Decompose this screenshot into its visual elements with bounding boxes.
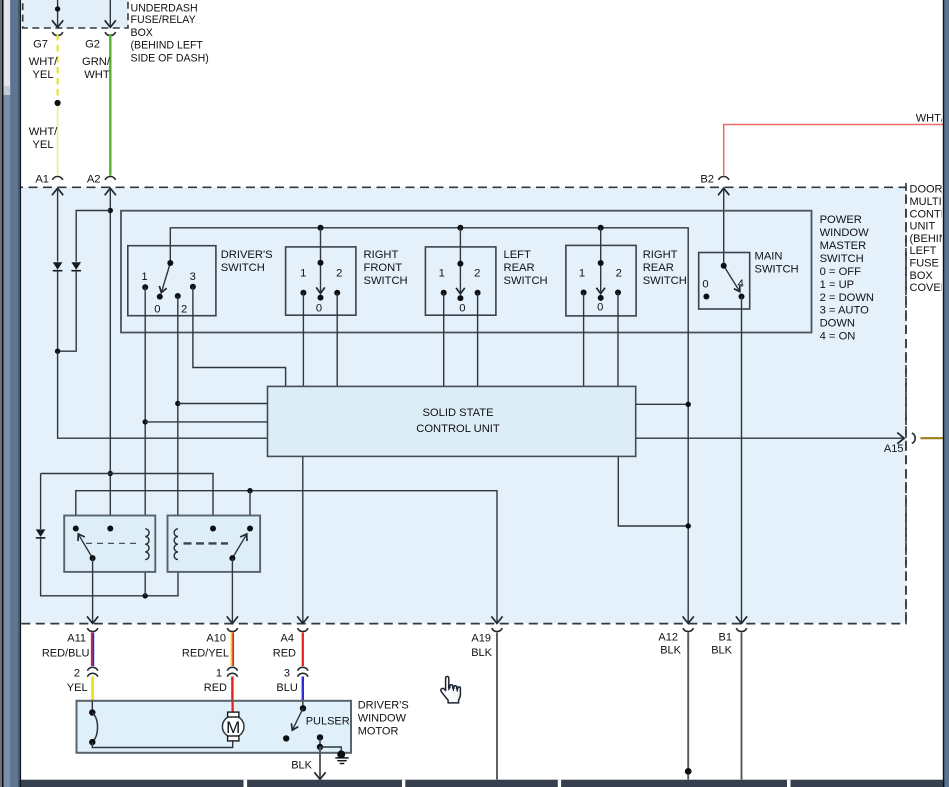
svg-text:B2: B2: [700, 174, 714, 186]
svg-text:BLK: BLK: [660, 645, 681, 657]
svg-text:2: 2: [616, 267, 622, 279]
junction driver 1 branch: [143, 419, 148, 424]
svg-text:SIDE OF DASH): SIDE OF DASH): [131, 52, 209, 64]
svg-text:1: 1: [141, 271, 147, 283]
svg-text:2: 2: [74, 668, 80, 680]
right rear switch box: [566, 245, 636, 316]
relay output rail (lower horizontal) to A19: [76, 491, 497, 623]
relay 2 actuator dashed link: [184, 542, 229, 544]
svg-text:BLK: BLK: [471, 647, 492, 659]
svg-text:POWER: POWER: [820, 214, 862, 226]
wire relay 2 output to A10: [231, 558, 233, 623]
wire WHT/YEL (G7 to A1): [57, 34, 59, 102]
svg-text:YEL: YEL: [67, 682, 88, 694]
inline connector 2: [87, 667, 98, 670]
wire driver's 3 output to control unit: [193, 287, 286, 387]
junction of diode outputs: [55, 349, 60, 354]
wire left rear 2 to control unit: [477, 293, 479, 387]
exit arrow A10: [227, 616, 238, 623]
hand cursor: [441, 677, 461, 703]
wire right front 1 to control unit: [302, 293, 304, 387]
contact 2: [175, 293, 181, 299]
svg-text:WHT/: WHT/: [29, 56, 58, 68]
svg-text:B1: B1: [719, 632, 732, 644]
diode D2 (on A2 branch): [71, 262, 81, 270]
wire D1 down to junction: [57, 271, 59, 351]
wire BLU to pulser: [302, 677, 304, 702]
svg-text:YEL: YEL: [32, 69, 53, 81]
power window master switch outer box: [121, 211, 812, 333]
motor switch arc: [92, 713, 97, 743]
connector A15: [912, 433, 915, 444]
underdash fuse/relay box (dashed): [23, 0, 128, 28]
feed junction right rear: [598, 225, 604, 231]
wire control unit right output to A12 drop: [636, 403, 689, 405]
wire BLK motor ground: [319, 747, 321, 778]
svg-text:SWITCH: SWITCH: [820, 253, 864, 265]
svg-text:G7: G7: [33, 39, 48, 51]
svg-text:BLU: BLU: [276, 682, 297, 694]
junction on A12 drop lower: [686, 523, 691, 528]
feed into right front switch: [320, 228, 322, 293]
relay 2 (window down relay) box: [168, 516, 261, 572]
case ground dot: [337, 750, 345, 758]
svg-text:BLK: BLK: [711, 645, 732, 657]
svg-text:3: 3: [284, 668, 290, 680]
svg-text:4 = ON: 4 = ON: [820, 331, 856, 343]
wire relay 1 output to A11: [92, 558, 94, 623]
wire driver's 2 output to relay 2 coil: [177, 296, 179, 529]
feed junction left rear: [457, 225, 463, 231]
relay 1 common: [107, 526, 113, 532]
bottom frame band (next diagram border): [0, 780, 949, 787]
wire RED/YEL (A10): [231, 633, 233, 667]
svg-text:1: 1: [439, 267, 445, 279]
diode D3: [36, 529, 46, 537]
wire A15 WHT tail: [921, 437, 944, 439]
wire YEL to motor: [91, 677, 94, 701]
svg-text:2: 2: [181, 303, 187, 315]
inline connector 1: [227, 667, 238, 670]
contact 0: [598, 295, 604, 301]
connector A19: [492, 628, 503, 631]
relay 1 (window up relay) box: [64, 516, 155, 572]
motor switch contact top: [91, 701, 93, 710]
contact 1: [581, 290, 587, 296]
contact 0: [457, 295, 463, 301]
svg-text:YEL: YEL: [32, 139, 53, 151]
wire main switch 4 output to B1: [741, 297, 743, 623]
wire WHT/RED from right edge to B2: [724, 125, 943, 176]
connector A12: [683, 628, 694, 631]
splice on A12 ground wire: [685, 768, 692, 775]
wire BLK (A19): [496, 633, 498, 780]
wire branch to diode: [76, 211, 110, 262]
feed into left rear switch: [459, 228, 461, 294]
svg-text:LEFT: LEFT: [504, 249, 532, 261]
svg-text:A12: A12: [658, 632, 678, 644]
power window master switch assembly box (dashed): [14, 187, 906, 623]
relay 1 lever: [79, 535, 93, 558]
exit arrow A11: [87, 616, 98, 623]
svg-text:SWITCH: SWITCH: [504, 275, 548, 287]
relay 1 NO contact: [73, 526, 79, 532]
right front switch box: [286, 247, 356, 315]
svg-text:SWITCH: SWITCH: [755, 263, 799, 275]
svg-text:0: 0: [316, 303, 322, 315]
svg-text:FUSE: FUSE: [910, 258, 939, 270]
junction on G7 wire: [55, 6, 60, 11]
svg-text:DOOR: DOOR: [910, 184, 943, 196]
junction on A12 drop: [686, 402, 691, 407]
svg-text:BOX: BOX: [131, 27, 153, 39]
motor M: [222, 716, 244, 738]
exit arrow A12: [683, 616, 694, 623]
diode D1 (on A1 wire): [53, 262, 63, 270]
wire D3 to coil return rail: [41, 538, 178, 596]
wire control unit bottom output to A12 drop: [618, 456, 688, 526]
right scrollbar strip: [943, 0, 949, 787]
relay 1 actuator dashed link: [86, 542, 140, 544]
main switch box: [699, 253, 750, 310]
wire D2 down joins junction: [58, 271, 77, 351]
exit arrow A19: [491, 616, 502, 623]
svg-text:CONTROL UNIT: CONTROL UNIT: [416, 423, 500, 435]
svg-text:M: M: [226, 718, 240, 737]
svg-text:1: 1: [579, 267, 585, 279]
svg-text:SWITCH: SWITCH: [643, 275, 687, 287]
wire G2 feed inside fuse box: [109, 0, 111, 26]
connector A10: [227, 628, 238, 631]
driver's switch lever: [162, 263, 171, 292]
svg-text:MOTOR: MOTOR: [358, 726, 399, 738]
door multiplex control unit box edge (dashed): [905, 183, 907, 624]
svg-text:UNDERDASH: UNDERDASH: [131, 3, 198, 15]
exit arrow A4: [297, 616, 308, 623]
svg-text:3 = AUTO: 3 = AUTO: [820, 305, 870, 317]
svg-text:(BEHIND LEFT: (BEHIND LEFT: [131, 40, 204, 52]
junction driver 2 branch: [175, 401, 180, 406]
connector G2: [105, 32, 116, 35]
feed junction right front: [318, 225, 324, 231]
relay 1 coil: [145, 529, 149, 560]
svg-text:WHT: WHT: [84, 69, 110, 81]
contact 1: [441, 290, 447, 296]
wire to control unit left input 3: [58, 351, 268, 438]
wire left rear 1 to control unit: [443, 293, 445, 387]
contact 1: [300, 290, 306, 296]
solid state control unit box: [268, 386, 636, 456]
svg-text:RED: RED: [204, 682, 227, 694]
contact 1: [142, 284, 148, 290]
svg-text:1 = UP: 1 = UP: [820, 279, 855, 291]
svg-text:0: 0: [154, 303, 160, 315]
svg-text:4: 4: [738, 278, 744, 290]
pulser contact: [302, 702, 304, 707]
svg-text:A4: A4: [281, 633, 294, 645]
connector A11: [87, 628, 98, 631]
wire driver's 1 output to relay 1 coil: [144, 287, 146, 529]
svg-text:0 = OFF: 0 = OFF: [820, 266, 862, 278]
wire to case ground: [320, 747, 341, 753]
svg-text:0: 0: [597, 302, 603, 314]
connector A2: [105, 177, 116, 180]
svg-text:A10: A10: [206, 633, 226, 645]
svg-text:RIGHT: RIGHT: [364, 249, 399, 261]
wire relay 1 coil bottom to return rail: [144, 559, 146, 596]
svg-text:RED: RED: [273, 648, 296, 660]
svg-text:A11: A11: [67, 633, 86, 645]
svg-text:G2: G2: [85, 39, 100, 51]
contact 0: [703, 294, 709, 300]
connector G7: [52, 32, 63, 35]
svg-text:A15: A15: [884, 443, 904, 455]
wire branch to control unit left input 1: [178, 403, 268, 405]
svg-text:LEFT: LEFT: [910, 245, 937, 257]
contact 2: [615, 290, 621, 296]
junction relay 1 coil return: [143, 593, 148, 598]
junction A2 wire / relay feed rail: [108, 471, 113, 476]
relay 2 common: [210, 526, 216, 532]
feed wire from driver switch across to A12 drop: [170, 228, 688, 623]
relay 2 coil: [174, 529, 178, 560]
svg-text:DRIVER'S: DRIVER'S: [221, 249, 273, 261]
main switch lever: [724, 266, 740, 291]
connector A1: [52, 177, 63, 180]
svg-text:DOWN: DOWN: [820, 318, 855, 330]
svg-text:FUSE/RELAY: FUSE/RELAY: [131, 14, 196, 26]
svg-text:A19: A19: [471, 633, 491, 645]
svg-text:2 = DOWN: 2 = DOWN: [820, 292, 874, 304]
wire rail down to diode D3: [40, 474, 42, 530]
label: DOOR MULTIPLEX CONTROL UNIT: [910, 184, 949, 294]
pulser lever: [293, 708, 303, 729]
svg-text:WHT/: WHT/: [29, 126, 58, 138]
svg-text:0: 0: [702, 279, 708, 291]
svg-text:2: 2: [336, 267, 342, 279]
wire RED/BLU (A11): [91, 633, 93, 667]
wire BLK (B1): [741, 633, 743, 780]
wire GRN/WHT (G2 to A2): [109, 34, 111, 176]
contact 2: [334, 290, 340, 296]
junction A2 branch: [108, 208, 113, 213]
left rear switch box: [425, 247, 496, 315]
svg-text:1: 1: [216, 668, 222, 680]
svg-text:GRN/: GRN/: [82, 56, 111, 68]
svg-text:DRIVER'S: DRIVER'S: [358, 700, 409, 712]
contact 4: [739, 294, 745, 300]
svg-text:MASTER: MASTER: [820, 240, 867, 252]
exit arrow B1: [736, 616, 747, 623]
connector B2: [718, 177, 729, 180]
wire right rear 1 to control unit: [583, 293, 585, 387]
wire branch to control unit left input 2: [145, 421, 267, 423]
svg-text:2: 2: [474, 267, 480, 279]
svg-text:BLK: BLK: [291, 760, 312, 772]
svg-text:RED/YEL: RED/YEL: [182, 648, 229, 660]
wire RED inside motor box: [232, 701, 234, 712]
relay feed rail (upper horizontal): [41, 474, 213, 529]
wire control unit output to A4: [302, 456, 304, 622]
wire BLK (A12): [687, 633, 689, 769]
inline connector 3: [298, 667, 309, 670]
splice on WHT/YEL wire: [55, 100, 61, 106]
contact 0: [157, 294, 163, 300]
wire relay 2 NO contact up-connect: [249, 491, 251, 529]
svg-text:FRONT: FRONT: [364, 262, 403, 274]
wire A1 entry: [57, 189, 59, 262]
svg-text:RED/BLU: RED/BLU: [42, 648, 90, 660]
driver's window motor box: [77, 701, 352, 753]
connector B1: [736, 628, 747, 631]
wire motor return: [92, 741, 232, 748]
contact 0: [318, 295, 324, 301]
svg-text:BOX: BOX: [910, 270, 934, 282]
wire right front 2 to control unit: [336, 293, 338, 387]
relay 2 lever: [232, 535, 246, 558]
wire A2 entry: [109, 189, 111, 529]
wire RED to motor: [231, 677, 233, 702]
contact 3: [190, 284, 196, 290]
svg-text:SOLID STATE: SOLID STATE: [422, 407, 493, 419]
svg-text:UNIT: UNIT: [910, 221, 936, 233]
driver's switch box: [128, 246, 216, 316]
svg-text:REAR: REAR: [643, 262, 674, 274]
svg-text:A1: A1: [35, 174, 49, 186]
svg-text:A2: A2: [87, 174, 101, 186]
svg-text:WINDOW: WINDOW: [820, 227, 870, 239]
relay 2 NO contact: [247, 526, 253, 532]
svg-text:WINDOW: WINDOW: [358, 713, 407, 725]
svg-text:SWITCH: SWITCH: [221, 262, 265, 274]
wire right rear 2 to control unit: [617, 293, 619, 387]
svg-text:SWITCH: SWITCH: [364, 275, 408, 287]
wire RED (A4): [302, 633, 304, 667]
svg-text:0: 0: [459, 303, 465, 315]
contact 2: [475, 290, 481, 296]
left scrollbar strip: [0, 0, 21, 787]
svg-text:3: 3: [190, 271, 196, 283]
svg-text:PULSER: PULSER: [306, 716, 350, 728]
svg-text:MAIN: MAIN: [755, 250, 783, 262]
svg-text:REAR: REAR: [504, 262, 535, 274]
ground symbol: [335, 757, 348, 759]
svg-text:RIGHT: RIGHT: [643, 249, 678, 261]
pulser ground contact pair: [317, 734, 323, 740]
wire G7 feed inside fuse box: [57, 0, 59, 26]
wire B2 entry: [723, 189, 725, 266]
svg-text:1: 1: [300, 267, 306, 279]
connector A4: [298, 628, 309, 631]
wire control unit to A15: [636, 437, 904, 439]
junction relay 2 NO contact: [247, 488, 252, 493]
feed into right rear switch: [600, 228, 602, 293]
